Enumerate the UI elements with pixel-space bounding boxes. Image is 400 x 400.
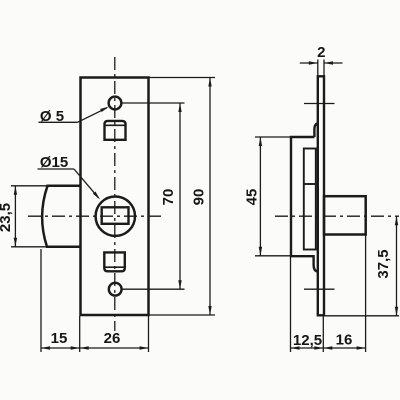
svg-text:70: 70	[160, 189, 177, 206]
svg-text:90: 90	[191, 189, 208, 206]
top spring cup	[105, 121, 126, 140]
svg-text:26: 26	[104, 330, 121, 347]
dimension 45	[255, 137, 291, 256]
side view lock body	[291, 124, 318, 272]
svg-text:37,5: 37,5	[375, 249, 392, 278]
dimension 70	[122, 103, 185, 289]
hole tick top	[304, 103, 335, 105]
svg-text:Ø 5: Ø 5	[40, 108, 64, 125]
svg-text:23,5: 23,5	[0, 203, 14, 232]
leader Ø15	[38, 169, 99, 198]
side view horizontal centerline	[275, 215, 399, 217]
svg-text:45: 45	[244, 189, 261, 206]
dimension 12,5 and 16	[291, 236, 366, 353]
dimension 90	[149, 78, 216, 316]
follower hub circle Ø15	[96, 197, 135, 236]
lock plate front view outline	[81, 78, 149, 316]
leader Ø5	[39, 108, 108, 123]
horizontal centerline front view	[28, 215, 162, 217]
dimension 15 and 26 extension lines	[41, 249, 149, 352]
side view faceplate	[318, 76, 324, 315]
bottom screw hole circle	[109, 283, 122, 296]
bottom spring cup	[104, 252, 125, 271]
hole tick bottom	[304, 288, 335, 290]
dimension 23,5	[11, 186, 48, 247]
spindle hole rectangle	[102, 207, 129, 224]
svg-text:15: 15	[51, 330, 68, 347]
dimension 37,5	[325, 216, 399, 316]
svg-text:12,5: 12,5	[293, 332, 322, 349]
vertical centerline front view	[114, 57, 116, 331]
side view inner mechanism rectangle	[304, 149, 316, 250]
side view latch bolt	[324, 196, 366, 234]
latch bolt front view	[42, 186, 80, 247]
top screw hole circle	[109, 97, 122, 110]
svg-text:2: 2	[317, 44, 325, 61]
svg-text:16: 16	[336, 332, 353, 349]
svg-text:Ø15: Ø15	[40, 154, 68, 171]
dimension 2	[300, 60, 343, 77]
